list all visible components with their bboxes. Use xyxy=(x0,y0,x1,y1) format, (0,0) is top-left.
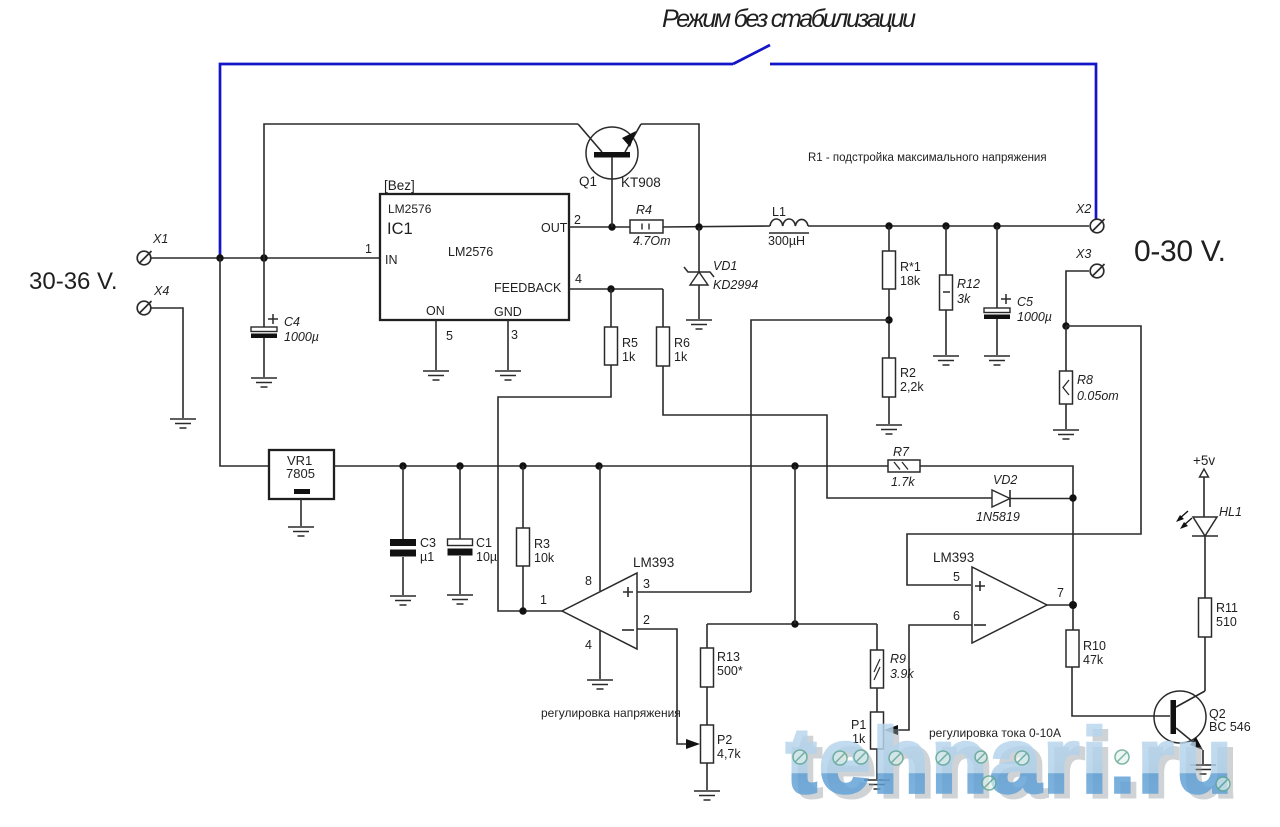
pin 6 wire (- input) to P1 wiper xyxy=(897,625,972,730)
node op1 pin8 xyxy=(595,462,602,469)
svg-text:C1: C1 xyxy=(476,536,492,550)
resistor R10 xyxy=(1066,630,1079,667)
transistor Q1 KT908 xyxy=(578,124,641,227)
wire C5 bottom xyxy=(996,319,998,355)
svg-text:KD2994: KD2994 xyxy=(713,278,758,292)
node ref net xyxy=(791,620,798,627)
svg-text:регулировка напряжения: регулировка напряжения xyxy=(541,706,681,720)
svg-text:Режим без стабилизации: Режим без стабилизации xyxy=(662,5,916,33)
svg-text:6: 6 xyxy=(953,609,960,623)
switch S1 open blade xyxy=(733,45,770,64)
svg-text:[Bez]: [Bez] xyxy=(384,178,415,193)
capacitor C3 xyxy=(402,466,404,539)
wire GND pin xyxy=(507,320,509,370)
node OUT / Q1 base xyxy=(608,223,615,230)
svg-text:0.05om: 0.05om xyxy=(1077,389,1119,403)
node R4 right xyxy=(695,223,702,230)
diode VD1 KD2994 zener xyxy=(684,227,714,319)
svg-text:C4: C4 xyxy=(284,315,300,329)
wire P2 bottom xyxy=(706,763,708,790)
wire HL1 to R11 xyxy=(1204,536,1206,598)
svg-text:5: 5 xyxy=(953,570,960,584)
ground below VR1 xyxy=(288,527,314,536)
svg-text:18k: 18k xyxy=(900,274,921,288)
svg-text:0-30 V.: 0-30 V. xyxy=(1134,235,1226,268)
svg-text:4: 4 xyxy=(585,638,592,652)
svg-text:R4: R4 xyxy=(636,203,652,217)
svg-text:7805: 7805 xyxy=(286,466,315,481)
capacitor C4 wire top xyxy=(263,258,265,327)
node X3/R8 xyxy=(1062,322,1069,329)
wire ON pin xyxy=(435,320,437,370)
svg-text:X3: X3 xyxy=(1075,247,1091,261)
wire R11 to Q2 collector xyxy=(1204,637,1206,691)
svg-text:R12: R12 xyxy=(957,277,980,291)
svg-text:4.7Om: 4.7Om xyxy=(633,234,671,248)
svg-text:10µ: 10µ xyxy=(476,550,497,564)
wire R4 to L1 xyxy=(663,226,770,227)
ground below Q2 xyxy=(1190,765,1216,774)
svg-text:1N5819: 1N5819 xyxy=(976,510,1020,524)
wire R12 bottom xyxy=(945,310,947,355)
svg-text:3: 3 xyxy=(643,577,650,591)
svg-text:+5v: +5v xyxy=(1193,453,1215,468)
pin 7 output wire xyxy=(1047,604,1073,606)
ground below C4 xyxy=(251,378,277,387)
svg-text:GND: GND xyxy=(494,305,522,319)
svg-text:1k: 1k xyxy=(674,350,688,364)
svg-text:2: 2 xyxy=(574,213,581,227)
svg-text:1.7k: 1.7k xyxy=(891,475,915,489)
pin 2 wire (- input) to P2 wiper xyxy=(637,629,687,744)
diode VD2 1N5819 xyxy=(992,490,1010,507)
svg-text:X2: X2 xyxy=(1075,202,1091,216)
resistor R4 xyxy=(630,220,663,233)
svg-text:C3: C3 xyxy=(420,536,436,550)
svg-text:2: 2 xyxy=(643,613,650,627)
node ref divider xyxy=(791,462,798,469)
node divider xyxy=(885,316,892,323)
resistor R9 xyxy=(876,624,878,650)
svg-text:R13: R13 xyxy=(717,650,740,664)
ground below P2 xyxy=(694,791,720,800)
node C3 xyxy=(399,462,406,469)
transistor Q2 BC546 xyxy=(1154,691,1206,764)
svg-text:R9: R9 xyxy=(890,652,906,666)
svg-text:Q1: Q1 xyxy=(579,174,597,189)
svg-text:510: 510 xyxy=(1216,615,1237,629)
wire R13 to P2 xyxy=(706,687,708,725)
node C5 top xyxy=(993,222,1000,229)
wire R5 bottom to op-amp1 output xyxy=(498,365,611,611)
svg-text:P2: P2 xyxy=(717,733,732,747)
svg-text:ON: ON xyxy=(426,304,445,318)
terminal X2 xyxy=(1090,219,1104,233)
wiper arrow into P2 xyxy=(686,739,700,749)
LED arrows xyxy=(1176,511,1192,529)
svg-text:R2: R2 xyxy=(900,366,916,380)
regulator VR1 7805 xyxy=(269,450,334,499)
op-amp U2A LM393 (left, mirrored) xyxy=(562,573,637,649)
svg-text:FEEDBACK: FEEDBACK xyxy=(494,281,562,295)
svg-text:7: 7 xyxy=(1057,586,1064,600)
svg-text:KT908: KT908 xyxy=(621,175,661,190)
wire X1 node down to VR1 xyxy=(220,258,269,466)
svg-text:HL1: HL1 xyxy=(1219,505,1242,519)
svg-text:8: 8 xyxy=(585,574,592,588)
node R12 top xyxy=(942,222,949,229)
potentiometer P1 xyxy=(871,712,884,749)
svg-text:1k: 1k xyxy=(622,350,636,364)
resistor R2 xyxy=(883,358,896,397)
capacitor C4 xyxy=(251,327,277,332)
svg-text:500*: 500* xyxy=(717,664,743,678)
ground below C3 xyxy=(390,596,416,605)
ground below R12 xyxy=(933,356,959,365)
node R*1 top xyxy=(885,222,892,229)
pin 3 wire (+ input) xyxy=(637,591,751,593)
wire R*1 to R2 xyxy=(888,289,890,358)
ground below R2 xyxy=(876,425,902,434)
ground below C1 xyxy=(447,595,473,604)
svg-text:R5: R5 xyxy=(622,336,638,350)
svg-text:LM2576: LM2576 xyxy=(388,202,432,216)
svg-text:X1: X1 xyxy=(152,232,168,246)
LED HL1 xyxy=(1193,517,1217,536)
svg-text:2,2k: 2,2k xyxy=(900,380,924,394)
svg-text:LM393: LM393 xyxy=(933,550,974,565)
wire divider to op-amp1 + input xyxy=(751,320,889,592)
wire R6 bottom to VD2 anode xyxy=(663,366,992,498)
svg-text:R8: R8 xyxy=(1077,373,1093,387)
wire R8 bottom xyxy=(1065,404,1067,429)
svg-text:R7: R7 xyxy=(893,445,910,459)
wire R7 right down to comparator output xyxy=(920,466,1073,630)
ground below GND xyxy=(495,371,521,380)
svg-text:OUT: OUT xyxy=(541,221,568,235)
wire X3 to node xyxy=(1066,271,1089,326)
svg-text:IC1: IC1 xyxy=(387,220,413,238)
inductor L1 300µH xyxy=(769,219,809,233)
svg-text:300µH: 300µH xyxy=(768,234,805,248)
wire X3 node to op-amp2 + input xyxy=(907,326,1141,585)
svg-text:tehnari.ru: tehnari.ru xyxy=(786,710,1232,812)
op-amp U2B LM393 (right) xyxy=(972,567,1047,643)
ground below P1 xyxy=(864,780,890,789)
svg-text:X4: X4 xyxy=(153,284,169,298)
svg-text:VD1: VD1 xyxy=(713,259,737,273)
ground below X4 xyxy=(170,419,196,428)
svg-text:R6: R6 xyxy=(674,336,690,350)
op-amp IC1 LM2576 box xyxy=(380,194,569,320)
resistor R*1 xyxy=(888,226,890,251)
ground below pin4 xyxy=(587,680,613,689)
pin 8 power xyxy=(599,466,601,591)
svg-text:3k: 3k xyxy=(957,292,971,306)
capacitor C4 wire bottom xyxy=(263,338,265,377)
svg-text:1000µ: 1000µ xyxy=(284,330,319,344)
wire VR1 out pin down xyxy=(300,499,302,526)
terminal X3 xyxy=(1090,264,1104,278)
svg-text:3: 3 xyxy=(511,328,518,342)
resistor R12 xyxy=(945,226,947,275)
node C1 xyxy=(456,462,463,469)
svg-text:LM2576: LM2576 xyxy=(448,245,493,259)
svg-text:R3: R3 xyxy=(534,537,550,551)
ground below ON xyxy=(423,371,449,380)
wire R13/R9 top net xyxy=(707,623,877,625)
capacitor C5 xyxy=(996,226,998,308)
svg-text:1: 1 xyxy=(365,242,372,256)
svg-text:µ1: µ1 xyxy=(420,550,434,564)
node VD2 cathode xyxy=(1069,494,1076,501)
ground below R8 xyxy=(1053,430,1079,439)
svg-text:1: 1 xyxy=(540,593,547,607)
svg-text:47k: 47k xyxy=(1083,653,1104,667)
svg-text:1000µ: 1000µ xyxy=(1017,310,1052,324)
potentiometer P2 xyxy=(701,725,714,763)
node at blue junction xyxy=(216,254,223,261)
resistor R11 xyxy=(1199,598,1212,637)
resistor R13 xyxy=(706,624,708,648)
svg-text:5: 5 xyxy=(446,329,453,343)
wire L1 to X2 xyxy=(808,225,1089,227)
wiper arrow into P1 xyxy=(884,725,898,735)
wire top bypass right xyxy=(641,124,699,227)
svg-text:4,7k: 4,7k xyxy=(717,747,741,761)
wire R10 to Q2 base xyxy=(1072,667,1170,716)
capacitor C1 xyxy=(459,466,461,539)
svg-text:R10: R10 xyxy=(1083,639,1106,653)
wire P1 bottom xyxy=(876,749,878,779)
pin 4 power xyxy=(599,631,601,679)
svg-text:L1: L1 xyxy=(772,205,786,219)
resistor R8 shunt xyxy=(1065,326,1067,371)
svg-text:3.9k: 3.9k xyxy=(890,667,914,681)
wire blue right to X2 xyxy=(770,64,1096,220)
ground below VD1 xyxy=(686,320,712,329)
node C4 tap xyxy=(260,254,267,261)
wire rail to ref net xyxy=(794,466,796,624)
resistor R3 xyxy=(522,466,524,528)
wire +5V rail xyxy=(334,465,888,467)
terminal X1 xyxy=(137,251,151,265)
wire blue left (bypass switch feed) xyxy=(220,64,733,258)
svg-text:R*1: R*1 xyxy=(900,260,921,274)
svg-text:IN: IN xyxy=(385,253,398,267)
watermark screws xyxy=(793,750,1230,791)
wire OUT pin xyxy=(569,226,630,228)
wire R9 to P1 xyxy=(876,688,878,712)
node FEEDBACK xyxy=(607,285,614,292)
svg-text:10k: 10k xyxy=(534,551,555,565)
resistor R5 xyxy=(610,289,612,327)
wire top bypass left xyxy=(264,124,578,258)
resistor R6 xyxy=(662,289,664,327)
wire X4 to ground xyxy=(151,308,183,418)
svg-text:C5: C5 xyxy=(1017,295,1033,309)
wire +5v to HL1 xyxy=(1203,477,1205,517)
wire X1 to IN xyxy=(151,257,380,259)
terminal X4 xyxy=(137,301,151,315)
svg-text:LM393: LM393 xyxy=(633,555,674,570)
ground below C5 xyxy=(984,356,1010,365)
svg-text:VD2: VD2 xyxy=(993,473,1017,487)
svg-text:4: 4 xyxy=(575,272,582,286)
node R3 xyxy=(519,462,526,469)
svg-text:30-36 V.: 30-36 V. xyxy=(29,268,118,295)
resistor R7 xyxy=(888,460,920,472)
svg-text:R1 - подстройка максимального: R1 - подстройка максимального напряжения xyxy=(808,152,1047,164)
wire R2 bottom xyxy=(888,397,890,424)
node pin7 xyxy=(1069,601,1077,609)
wire FEEDBACK pin xyxy=(569,288,663,290)
svg-text:R11: R11 xyxy=(1216,601,1238,615)
node R3 bottom xyxy=(519,607,526,614)
